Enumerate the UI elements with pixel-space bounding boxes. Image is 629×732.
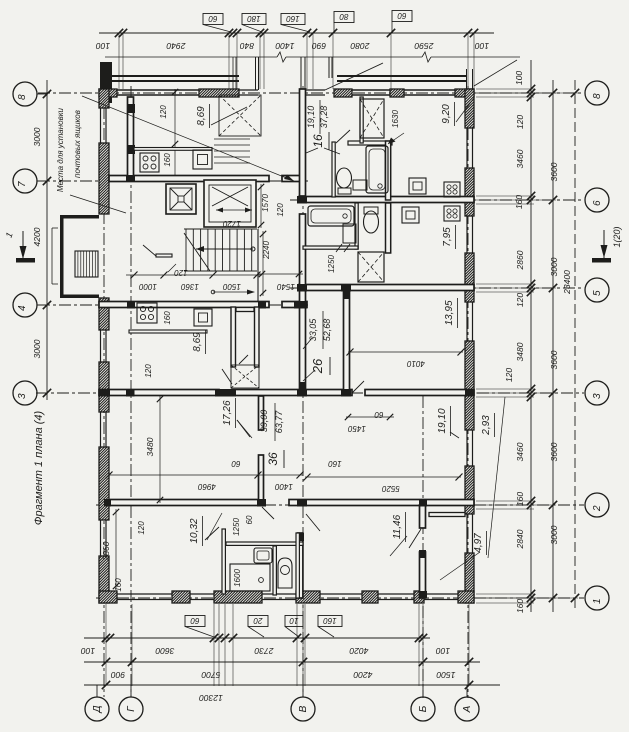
bottom row2 tick x303: [299, 658, 307, 666]
grid circle 5 right: [585, 278, 609, 302]
top outer wall window 2: [352, 89, 390, 91]
bottom wall window 4: [320, 593, 362, 595]
svg-text:11,46: 11,46: [392, 514, 403, 539]
kitchen sink 4: [402, 207, 419, 223]
left outer wall pier b: [99, 143, 109, 214]
svg-text:4010: 4010: [407, 359, 425, 368]
right chain1 tick y292: [527, 288, 535, 296]
dim line 1450 60: [346, 416, 394, 418]
left chain tick y181: [43, 177, 51, 185]
svg-text:3600: 3600: [549, 350, 559, 369]
svg-text:60: 60: [374, 410, 383, 419]
interior dim arrow entry: [213, 291, 250, 293]
balcony divider stub a: [232, 57, 234, 89]
svg-text:почтовых ящиков: почтовых ящиков: [73, 110, 82, 178]
dim line 4960 1400: [109, 474, 303, 476]
interior wall grid 2 left: [109, 500, 262, 506]
interior wall grid 3 left: [99, 390, 219, 396]
bottom wall window 2: [190, 593, 214, 595]
stair arrow: [196, 248, 253, 250]
svg-text:1720: 1720: [223, 219, 241, 228]
kitchen stove 3: [444, 182, 460, 197]
svg-text:3: 3: [17, 393, 28, 399]
right outer wall pier top: [465, 89, 474, 128]
right chain1 tick y89: [527, 85, 535, 93]
svg-text:1360: 1360: [181, 282, 199, 291]
top chain tick x123: [119, 29, 127, 37]
vertical wall V mid: [300, 214, 306, 389]
partition B to A wall: [429, 513, 465, 517]
svg-text:4,97: 4,97: [473, 533, 484, 553]
bottom extension lines: [105, 604, 107, 686]
left chain tick y94: [43, 90, 51, 98]
grid circle Д bottom: [85, 697, 109, 721]
svg-text:5700: 5700: [201, 670, 220, 680]
elevator shaft B box: [204, 180, 256, 227]
interior wall grid 7: [109, 176, 269, 182]
washbasin 2nd: [343, 224, 356, 243]
interior wall grid 4 stub: [282, 302, 307, 308]
shaft door leaf outer: [222, 369, 232, 384]
svg-text:36: 36: [266, 452, 280, 466]
entrance porch top wall: [60, 215, 99, 219]
svg-text:3460: 3460: [515, 442, 525, 461]
svg-text:5520: 5520: [382, 484, 400, 493]
callout 160 bottom: [318, 616, 342, 627]
right chain1 tick y505: [527, 501, 535, 509]
balcony front line top: [105, 56, 277, 58]
left wall window 2: [100, 330, 102, 362]
top outer wall pier b: [199, 89, 239, 97]
bottom wall window 1: [117, 593, 172, 595]
svg-text:120: 120: [515, 115, 525, 129]
grid line D vertical: [103, 86, 105, 697]
elevator shaft A box: [166, 184, 196, 214]
leader 4,97 diagonal: [440, 552, 480, 580]
partition kitchen 2: [129, 330, 207, 333]
right chain2 tick y200: [549, 196, 557, 204]
upper stair flight small: [214, 138, 250, 140]
right outer wall pier b: [465, 168, 474, 216]
svg-text:4200: 4200: [32, 227, 42, 246]
svg-text:60: 60: [208, 14, 217, 23]
svg-text:2590: 2590: [414, 41, 434, 51]
door leaf room 10-32: [205, 527, 219, 540]
callout 60 top a: [203, 14, 223, 25]
right chain 2 line: [552, 80, 554, 612]
left outer wall pier f: [99, 556, 109, 603]
svg-text:160: 160: [514, 195, 524, 209]
svg-text:7: 7: [17, 181, 28, 187]
top entrance bay wall left: [239, 89, 258, 91]
svg-text:2080: 2080: [350, 41, 370, 51]
leader 33,05: [303, 338, 312, 349]
svg-text:2840: 2840: [515, 529, 525, 549]
svg-text:2240: 2240: [262, 241, 271, 260]
svg-text:4: 4: [17, 305, 28, 311]
left outer wall pier e: [99, 447, 109, 520]
shaft door leaf inner: [239, 355, 248, 364]
leader 26: [303, 370, 315, 381]
vertical wall stub below grid3: [259, 396, 264, 430]
right outer wall pier d: [465, 341, 474, 430]
svg-text:39,00: 39,00: [259, 410, 269, 433]
right outer wall pier e: [465, 466, 474, 514]
left chain tick y393: [43, 389, 51, 397]
svg-text:180: 180: [247, 14, 261, 23]
stair hall entry partition: [156, 254, 172, 257]
entrance porch left wall: [60, 215, 64, 298]
toilet apartment 2nd: [364, 211, 379, 233]
right chain1 tick y501: [527, 497, 535, 505]
svg-text:1000: 1000: [139, 282, 157, 291]
vent duct dashed box lower stair: [231, 365, 259, 388]
second staircase top landing bar: [236, 308, 254, 312]
left grid leader lines: [37, 93, 47, 95]
left outer wall pier c: [99, 298, 109, 330]
bottom row2 tick x106: [102, 658, 110, 666]
svg-text:Места для установки: Места для установки: [56, 107, 65, 192]
door leaf room 17-26: [237, 420, 250, 437]
left outer wall pier d: [99, 362, 109, 412]
bottom row1 tick x419: [415, 634, 423, 642]
grid circle 2 right: [585, 493, 609, 517]
svg-text:1500: 1500: [223, 282, 241, 291]
bottom outer wall pier g: [458, 591, 474, 603]
svg-text:А: А: [462, 705, 473, 713]
dim line 3480 left rooms: [159, 396, 161, 503]
top entrance bay wall right: [301, 89, 325, 91]
second staircase shaft wall left: [231, 307, 236, 367]
svg-text:1250: 1250: [232, 518, 241, 536]
svg-text:160: 160: [114, 578, 123, 592]
kitchen stove 2: [137, 303, 157, 323]
svg-text:120: 120: [137, 521, 146, 535]
bathtub apartment 2nd: [308, 206, 354, 226]
svg-text:12300: 12300: [199, 693, 223, 703]
bottom row1 tick x225: [221, 634, 229, 642]
dim line 4010: [348, 351, 463, 353]
svg-text:23400: 23400: [562, 270, 572, 295]
top chain tick x237: [233, 29, 241, 37]
top chain tick x229: [225, 29, 233, 37]
svg-text:Фрагмент 1 плана (4): Фрагмент 1 плана (4): [33, 410, 45, 525]
grid line V vertical: [302, 86, 304, 697]
interior wall grid 7 right part: [282, 176, 303, 182]
bottom row2 tick x423: [419, 658, 427, 666]
door leaf bottom bath: [262, 507, 274, 519]
left wall window 4: [100, 520, 102, 556]
bottom wall window 5: [378, 593, 414, 595]
grid circle 3 left: [13, 381, 37, 405]
right chain1 tick y594: [527, 590, 535, 598]
leader 19,10 lower: [450, 432, 459, 438]
bottom outer wall pier e: [362, 591, 378, 603]
bathtub 1 drain: [378, 184, 382, 188]
kitchen sink 2: [194, 309, 212, 326]
svg-text:37,28: 37,28: [319, 106, 329, 129]
porch step lines: [52, 227, 58, 229]
svg-text:1570: 1570: [261, 194, 270, 212]
svg-text:16: 16: [311, 134, 325, 148]
svg-text:5: 5: [592, 290, 603, 296]
vertical wall B lower lower part: [420, 552, 426, 598]
top outer wall window 3: [404, 89, 455, 91]
bottom row1 tick x214: [210, 634, 218, 642]
svg-text:1: 1: [592, 598, 603, 604]
svg-text:100: 100: [475, 41, 489, 51]
svg-text:7,95: 7,95: [442, 227, 453, 247]
svg-text:3480: 3480: [515, 342, 525, 361]
svg-text:120: 120: [159, 105, 168, 119]
svg-text:2860: 2860: [515, 250, 525, 270]
right chain1 tick y603: [527, 599, 535, 607]
svg-text:100: 100: [514, 71, 524, 85]
top chain line: [99, 32, 494, 34]
svg-text:4020: 4020: [349, 646, 368, 656]
bottom outer wall pier d: [296, 591, 320, 603]
vertical wall B lower upper part: [420, 505, 426, 528]
bathroom 1 door leaf: [336, 130, 350, 143]
top chain tick x307: [303, 29, 311, 37]
vent shaft bathroom 1: [360, 99, 384, 138]
top chain tick x233: [229, 29, 237, 37]
svg-text:3480: 3480: [145, 437, 155, 456]
right wall window 5: [466, 514, 468, 553]
svg-text:19,10: 19,10: [306, 106, 316, 129]
right chain1 tick y200: [527, 196, 535, 204]
bottom row1 tick x106: [102, 634, 110, 642]
svg-text:100: 100: [81, 646, 95, 656]
bathroom 1 walls: [348, 141, 392, 145]
entrance bay divider a: [255, 57, 257, 90]
right outer wall pier f: [465, 553, 474, 603]
top chain tick x333: [329, 29, 337, 37]
vertical wall G upper: [128, 97, 134, 181]
right chain1 tick y196: [527, 192, 535, 200]
door leaf 4,97 room: [409, 529, 421, 548]
bottom row1 tick x305: [301, 634, 309, 642]
right wall window 1: [466, 128, 468, 168]
right wall window 4: [466, 430, 468, 466]
vertical wall stub above grid2: [259, 455, 264, 505]
svg-text:100: 100: [436, 646, 450, 656]
kitchen stove top-left: [140, 153, 159, 172]
svg-text:2730: 2730: [254, 646, 274, 656]
grid line 1 horizontal: [96, 597, 584, 599]
grid line 6 horizontal: [290, 199, 584, 201]
right chain2 tick y288: [549, 284, 557, 292]
leader 2,93 diagonal: [488, 397, 505, 558]
svg-text:60: 60: [231, 459, 240, 468]
leader 100 right top: [474, 60, 517, 86]
bathroom 2 walls: [355, 203, 358, 249]
right chain 1 line: [530, 60, 532, 612]
grid circle А bottom: [455, 697, 479, 721]
svg-text:160: 160: [163, 311, 172, 325]
leader 17,26: [237, 420, 252, 438]
svg-text:1540: 1540: [277, 282, 295, 291]
svg-text:2940: 2940: [166, 41, 186, 51]
bottom row1 tick x297: [293, 634, 301, 642]
svg-text:690: 690: [312, 41, 326, 51]
grid circle 4 left: [13, 293, 37, 317]
vertical wall 13-95 to 33-05: [344, 291, 350, 393]
dimension 1540 corridor: [258, 273, 303, 275]
svg-text:160: 160: [163, 153, 172, 167]
svg-text:10,32: 10,32: [189, 518, 200, 543]
top outer wall pier a: [99, 89, 117, 97]
leader 8,69 top: [211, 107, 247, 125]
bottom row2 tick x469: [465, 658, 473, 666]
grid circle Б bottom: [411, 697, 435, 721]
callout 60 top b: [392, 11, 412, 22]
svg-text:1450: 1450: [348, 424, 366, 433]
bottom outer wall pier a: [99, 591, 117, 603]
second staircase shaft wall right: [255, 307, 260, 367]
svg-text:3: 3: [592, 393, 603, 399]
washbasin apartment 16: [353, 180, 367, 190]
grid line 3 horizontal: [36, 392, 584, 394]
mailbox note leader: [82, 96, 294, 181]
vertical wall V lower: [298, 533, 303, 598]
leader 10,32: [207, 513, 222, 540]
door leaf stair entry: [143, 245, 156, 256]
svg-text:9,20: 9,20: [441, 104, 452, 124]
grid circle 1 right: [585, 586, 609, 610]
svg-text:20: 20: [253, 616, 263, 625]
dim line 120 topleft: [174, 89, 176, 147]
door leaf 11-46 room: [306, 514, 320, 531]
grid line 7 horizontal: [38, 180, 310, 182]
left outer wall pier top: [99, 89, 109, 108]
grid circle 8 right: [585, 81, 609, 105]
black pier top-left: [100, 62, 112, 103]
bottom row2 tick x132: [128, 658, 136, 666]
left wall window 3: [100, 412, 102, 447]
callout 20 bottom: [248, 616, 268, 627]
top chain tick x468: [464, 29, 472, 37]
right chain1 tick y288: [527, 284, 535, 292]
svg-text:120: 120: [144, 364, 153, 378]
entrance porch bottom wall: [60, 295, 99, 299]
top chain tick x391: [387, 29, 395, 37]
mailbox hatched box: [75, 251, 98, 277]
svg-text:В: В: [298, 705, 309, 712]
svg-text:8: 8: [592, 93, 603, 99]
right chain2 tick y393: [549, 389, 557, 397]
interior wall grid 4: [99, 302, 269, 308]
svg-text:120: 120: [276, 203, 285, 217]
bottom outer wall pier c: [214, 591, 262, 603]
svg-text:1500: 1500: [436, 670, 455, 680]
svg-text:4960: 4960: [198, 482, 216, 491]
interior wall grid 5: [299, 285, 474, 291]
top outer wall window 1: [117, 89, 199, 91]
bottom row1 tick x110: [106, 634, 114, 642]
svg-text:3600: 3600: [549, 442, 559, 461]
svg-text:160: 160: [328, 459, 342, 468]
leader 16 a: [324, 148, 340, 154]
interior wall grid 6: [299, 197, 474, 203]
svg-text:1(20): 1(20): [612, 226, 622, 247]
leader 11,46: [390, 536, 407, 556]
vertical wall V upper: [300, 89, 306, 196]
svg-text:900: 900: [111, 670, 125, 680]
top chain tick x313: [309, 29, 317, 37]
left wall window 1: [100, 108, 102, 143]
right chain1 tick y598: [527, 594, 535, 602]
callout 160 top: [281, 14, 305, 25]
grid line 4 horizontal: [38, 304, 310, 306]
svg-text:120: 120: [504, 368, 514, 382]
callout 180 top: [242, 14, 266, 25]
kitchen stove 4: [444, 206, 460, 221]
svg-text:160: 160: [515, 492, 525, 506]
svg-text:1400: 1400: [275, 482, 293, 491]
toilet apartment 16: [337, 168, 352, 188]
right chain 3 line: [574, 80, 576, 612]
svg-text:120: 120: [174, 268, 188, 277]
balcony side wall at A: [466, 69, 468, 89]
wall junction blobs: [127, 104, 135, 113]
kitchen sink 3: [409, 178, 426, 194]
dimension 1720 line with arrows: [216, 209, 252, 211]
grid circle 3 right: [585, 381, 609, 405]
grid circle В bottom: [291, 697, 315, 721]
svg-text:80: 80: [339, 12, 348, 21]
svg-text:100: 100: [96, 41, 110, 51]
svg-text:840: 840: [240, 41, 254, 51]
svg-text:19,10: 19,10: [437, 408, 448, 433]
balcony parapet right: [337, 75, 467, 77]
right chain2 tick y598: [549, 594, 557, 602]
leader 16 b: [306, 148, 318, 153]
svg-text:2: 2: [592, 505, 603, 512]
top outer wall pier c: [334, 89, 352, 97]
right outer wall pier c: [465, 253, 474, 302]
right chain1 tick y284: [527, 280, 535, 288]
grid line 8 horizontal: [38, 92, 584, 94]
bottom wall window 6: [424, 593, 458, 595]
svg-text:160: 160: [286, 14, 300, 23]
partition kitchen top-left: [134, 148, 212, 151]
svg-text:3460: 3460: [515, 149, 525, 168]
right chain2 tick y93: [549, 89, 557, 97]
right chain2 tick y505: [549, 501, 557, 509]
grid circle Г bottom: [119, 697, 143, 721]
bathtub apartment 16: [366, 146, 388, 193]
svg-text:Д: Д: [92, 705, 103, 713]
grid line G vertical: [130, 86, 132, 697]
svg-text:4200: 4200: [353, 670, 372, 680]
svg-text:8,69: 8,69: [192, 332, 203, 352]
svg-text:17,26: 17,26: [222, 400, 233, 425]
kitchen unit bottom sink: [254, 548, 272, 563]
svg-text:3000: 3000: [32, 339, 42, 358]
bottom row1 tick x423: [419, 634, 427, 642]
left dimension chain line: [46, 80, 48, 400]
right chain1 tick y97: [527, 93, 535, 101]
svg-text:120: 120: [515, 293, 525, 307]
svg-text:1400: 1400: [275, 41, 294, 51]
toilet bottom: [278, 558, 292, 588]
svg-text:60: 60: [245, 515, 254, 524]
grid line 5 horizontal: [290, 287, 584, 289]
vent shaft bathroom 2: [358, 252, 384, 282]
kitchen sink top-left: [193, 150, 212, 169]
left chain tick y305: [43, 301, 51, 309]
